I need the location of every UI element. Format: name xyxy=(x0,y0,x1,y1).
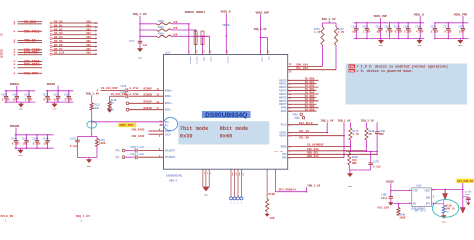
svg-text:4.7uF: 4.7uF xyxy=(385,31,393,34)
svg-text:4.7K: 4.7K xyxy=(314,31,321,34)
svg-text:GND: GND xyxy=(348,185,353,188)
capacitor bank VDD1_PPO: C17H C17K C17N xyxy=(430,13,468,47)
wire port row A2 net ENG_TDLE xyxy=(13,29,42,34)
power net VDD1_D (center) xyxy=(221,10,231,13)
svg-text:RX_D4: RX_D4 xyxy=(54,36,63,39)
svg-text:IHQ_1.8V: IHQ_1.8V xyxy=(86,92,100,95)
wire port row A11 net VCC_CTR xyxy=(13,71,42,76)
ferrite bead FB06 xyxy=(140,20,189,25)
svg-text:C153: C153 xyxy=(53,93,59,96)
ground right block xyxy=(347,174,352,189)
svg-text:RD5: RD5 xyxy=(87,40,92,43)
svg-text:0.1uF: 0.1uF xyxy=(65,99,73,102)
capacitor bank VDD1_D: C16B C17D C16D C16E xyxy=(385,13,425,47)
svg-text:C14D: C14D xyxy=(120,85,126,88)
svg-text:V01_PWR_EN: V01_PWR_EN xyxy=(457,180,473,183)
net label PCLK_IN bottom xyxy=(1,215,14,223)
svg-text:GND: GND xyxy=(458,44,463,47)
svg-text:C155: C155 xyxy=(64,93,70,96)
svg-text:10uF: 10uF xyxy=(381,197,388,200)
svg-text:IHQ_1.8V: IHQ_1.8V xyxy=(76,215,91,218)
svg-text:C16B: C16B xyxy=(385,25,391,28)
wire bus row RX_D5 xyxy=(50,40,97,44)
wire ROUT1 row xyxy=(279,81,316,86)
svg-text:RIN0N: RIN0N xyxy=(144,93,153,96)
svg-text:«: « xyxy=(13,41,15,46)
svg-text:RIN0-: RIN0- xyxy=(165,95,173,98)
wire port row A1 xyxy=(13,22,42,27)
svg-text:VDDPLL: VDDPLL xyxy=(196,57,199,66)
resistor R11B 10K (blue, DNM) xyxy=(442,204,455,213)
svg-text:VDD1_PPD: VDD1_PPD xyxy=(119,124,133,127)
wire OEN/PDB net xyxy=(282,155,344,160)
test point TP81 xyxy=(294,116,305,119)
svg-text:1uF: 1uF xyxy=(13,99,18,102)
wire ROUT3 row xyxy=(279,88,316,93)
svg-text:«: « xyxy=(13,29,15,34)
power net IHQ_1.8V (pullup col 2) xyxy=(338,119,351,122)
svg-text:OEN_934: OEN_934 xyxy=(307,155,319,158)
svg-text:680R: 680R xyxy=(94,107,100,110)
svg-text:RD3: RD3 xyxy=(87,32,92,35)
svg-text:PDB: PDB xyxy=(349,65,354,68)
svg-text:IH_934_R0P: IH_934_R0P xyxy=(101,87,118,90)
svg-text:C177: C177 xyxy=(129,40,135,43)
wire VOUT rail xyxy=(431,189,463,191)
wire GPO1 row xyxy=(281,108,317,113)
svg-text:RIN0+: RIN0+ xyxy=(165,89,173,92)
svg-text:IHQ_1.8V: IHQ_1.8V xyxy=(321,119,334,122)
wire bus row RX_D6 xyxy=(50,44,97,48)
power net IHQ_3.3V (pullup col 3) xyxy=(361,119,374,122)
svg-text:RD8: RD8 xyxy=(87,52,92,55)
svg-text:RIN1P: RIN1P xyxy=(144,101,153,104)
ground for C177 xyxy=(137,49,142,60)
svg-text:8bit mode: 8bit mode xyxy=(220,126,249,132)
svg-text:SOT-23-5: SOT-23-5 xyxy=(414,210,426,213)
svg-text:RST: RST xyxy=(426,203,431,206)
ground for R12A/C17Z xyxy=(86,160,91,168)
wire RIN0- row with coupling cap C14E xyxy=(110,91,164,98)
svg-text:1uF: 1uF xyxy=(459,31,464,34)
power net IHO_3.3V (PDB pullup) xyxy=(307,184,320,187)
svg-text:RD2: RD2 xyxy=(87,28,92,31)
power net IHQ_3.3V label mid xyxy=(254,28,267,31)
svg-text:GND: GND xyxy=(53,108,58,111)
svg-text:1uF: 1uF xyxy=(54,99,59,102)
svg-text:= 1.8 V, device is enabled (no: = 1.8 V, device is enabled (normal opera… xyxy=(357,65,449,70)
svg-text:GPO1: GPO1 xyxy=(281,110,287,113)
svg-text:C16E: C16E xyxy=(415,25,421,28)
svg-text:SD_BCK: SD_BCK xyxy=(24,20,36,24)
svg-text:GND: GND xyxy=(426,197,431,200)
capacitor C1B1 xyxy=(463,197,471,205)
power net VDDCML VDDPLL label xyxy=(185,11,206,14)
svg-text:DNP: DNP xyxy=(379,133,384,136)
power flag arrow V01 xyxy=(460,208,465,214)
svg-text:C14A: C14A xyxy=(12,93,18,96)
svg-text:«: « xyxy=(13,53,15,58)
svg-text:RX_D0: RX_D0 xyxy=(54,21,63,24)
svg-text:SYL_VS: SYL_VS xyxy=(299,130,309,133)
svg-text:PDB: PDB xyxy=(282,157,287,160)
power net IHQ_1.8V (top) xyxy=(133,13,147,16)
wire RIN0+ row with coupling cap C14B xyxy=(96,85,163,93)
pin RIN0+ name xyxy=(165,89,173,92)
wire port row A3 net TDI_ID xyxy=(13,39,42,44)
wire port row A7 xyxy=(13,53,42,58)
svg-text:V01_LDO: V01_LDO xyxy=(377,207,389,210)
ground R11B xyxy=(441,214,446,224)
resistor R13B 549 DNP xyxy=(348,151,359,165)
pin numbers IC top xyxy=(188,51,270,54)
svg-text:4.7K: 4.7K xyxy=(338,31,345,34)
svg-text:ETH_MDC: ETH_MDC xyxy=(24,51,38,55)
wire LDO3V to VIN xyxy=(390,183,412,191)
svg-text:SCL_934: SCL_934 xyxy=(296,67,308,70)
svg-text:SW1B: SW1B xyxy=(465,193,471,196)
pin names IC top (rotated) xyxy=(189,57,271,66)
svg-text:C1B5: C1B5 xyxy=(381,194,387,197)
resistor filter box R2 xyxy=(201,31,204,45)
wire VSYNC net xyxy=(279,130,328,135)
svg-text:C151: C151 xyxy=(43,93,49,96)
svg-text:U17: U17 xyxy=(166,51,171,54)
annotation teal circle junction xyxy=(87,121,97,128)
wire ROUT7 row xyxy=(279,102,316,107)
svg-text:C14E: C14E xyxy=(120,91,126,94)
svg-text:0.1uF: 0.1uF xyxy=(43,99,51,102)
svg-text:C17B: C17B xyxy=(373,161,379,164)
svg-text:7bit mode: 7bit mode xyxy=(180,126,209,132)
svg-text:C17D: C17D xyxy=(394,25,400,28)
svg-text:RD1: RD1 xyxy=(87,24,92,27)
pin CMLOUTN name xyxy=(165,156,176,159)
svg-text:RD0: RD0 xyxy=(87,21,92,24)
ferrite bead FB08 xyxy=(140,32,209,37)
svg-text:GND: GND xyxy=(379,44,384,47)
svg-text:4.7uF: 4.7uF xyxy=(416,31,424,34)
wire NC pins group xyxy=(230,169,244,204)
svg-text:VDDD: VDDD xyxy=(209,57,212,63)
node left edge ref LA xyxy=(0,34,3,37)
wire ROUT0 row xyxy=(279,78,318,83)
svg-text:2.2uF: 2.2uF xyxy=(404,31,412,34)
svg-text:TP6: TP6 xyxy=(115,150,120,153)
svg-text:HSYNC: HSYNC xyxy=(279,135,287,138)
note text line 2 xyxy=(349,69,414,74)
wire ROUT6 row xyxy=(279,98,318,103)
svg-text:C17H: C17H xyxy=(430,25,436,28)
svg-text:0.1uF: 0.1uF xyxy=(12,143,20,146)
svg-text:IHO_3.3V: IHO_3.3V xyxy=(322,18,336,21)
net label IHQ_1.8V bottom xyxy=(76,215,91,223)
capacitor C17B 0.1uF xyxy=(369,151,382,170)
svg-text:C17Z: C17Z xyxy=(70,138,76,141)
svg-text:VDD1: VDD1 xyxy=(261,57,264,63)
annotation blue ellipse on IDX pins xyxy=(163,117,177,130)
svg-text:0.1uF: 0.1uF xyxy=(444,31,452,34)
wire GND pins group xyxy=(203,169,212,187)
svg-text:C161: C161 xyxy=(376,25,382,28)
svg-text:1uF: 1uF xyxy=(143,44,148,47)
wire port row A6 net ETH_MDC xyxy=(13,51,42,56)
wire bus row RX_D2 xyxy=(50,28,97,32)
svg-text:PCLK: PCLK xyxy=(281,124,287,127)
svg-text:0.1uF: 0.1uF xyxy=(2,99,10,102)
wire MODE net xyxy=(281,140,351,148)
svg-text:VIN: VIN xyxy=(413,190,418,193)
svg-text:C148: C148 xyxy=(1,93,7,96)
wire bottom join right block xyxy=(349,165,370,174)
wire IDX net xyxy=(274,148,367,153)
svg-text:1uF: 1uF xyxy=(43,143,48,146)
power net VDD1_OVP (center) xyxy=(256,12,270,15)
ground R10B xyxy=(265,212,269,217)
svg-text:RD4: RD4 xyxy=(87,36,92,39)
wire bus row RX_D7 xyxy=(50,48,97,52)
svg-text:IH2_PCLK: IH2_PCLK xyxy=(299,122,313,125)
svg-text:1uF: 1uF xyxy=(352,31,357,34)
capacitor C17Z 0.1uF xyxy=(70,137,92,158)
svg-text:GND: GND xyxy=(138,57,143,60)
test point TP4 / wire RIN1+ row xyxy=(110,101,164,106)
part name under IC xyxy=(166,174,182,182)
svg-text:IH_RD9: IH_RD9 xyxy=(305,108,315,111)
svg-text:0x60: 0x60 xyxy=(220,134,233,140)
svg-text:RIN1N: RIN1N xyxy=(144,107,153,110)
wire VDDPLL pin drop xyxy=(195,29,197,54)
svg-text:FB07: FB07 xyxy=(158,26,164,29)
svg-text:VCC_CTR: VCC_CTR xyxy=(24,71,38,75)
svg-text:IHQ_1.8V: IHQ_1.8V xyxy=(133,13,147,16)
wire LOCK row xyxy=(131,134,163,138)
wire ROUT2 row xyxy=(279,85,318,90)
svg-text:0.1uF: 0.1uF xyxy=(25,99,33,102)
IC title DS90UB934Q (blue highlight) xyxy=(202,111,251,119)
svg-text:VDD1_D: VDD1_D xyxy=(221,10,231,13)
svg-text:2.2uF: 2.2uF xyxy=(431,31,439,34)
pin CMLOUTP name xyxy=(165,150,176,153)
node left edge refs xyxy=(0,50,3,59)
wire second drop xyxy=(261,38,268,55)
svg-text:«: « xyxy=(469,189,471,193)
svg-text:0.47uF: 0.47uF xyxy=(130,93,140,96)
svg-text:C167: C167 xyxy=(352,25,358,28)
svg-text:TP4: TP4 xyxy=(110,102,115,105)
wire pullup col1 xyxy=(326,122,328,132)
wire ROUT5 row xyxy=(279,95,316,100)
wire HSYNC net xyxy=(279,135,345,140)
ground for R122 xyxy=(107,110,112,113)
pin RIN1+ name xyxy=(165,102,173,105)
wire port row A9 net PHY_RST0 xyxy=(13,63,42,68)
svg-text:0.47uF: 0.47uF xyxy=(130,87,140,90)
wire pullup tee xyxy=(323,21,337,27)
svg-text:FB06: FB06 xyxy=(158,20,164,23)
resistor R12B 4K xyxy=(365,122,375,151)
net label V01_PWR_EN (yellow highlight) xyxy=(456,179,474,184)
wire port row A4 xyxy=(13,41,42,46)
svg-text:4K: 4K xyxy=(368,133,372,136)
svg-text:SYL_HS: SYL_HS xyxy=(299,137,309,140)
svg-text:VDDIN: VDDIN xyxy=(222,24,230,27)
svg-text:U10: U10 xyxy=(417,184,422,187)
svg-text:VDD1B: VDD1B xyxy=(47,83,56,86)
wire GPO0 row xyxy=(281,105,319,110)
svg-text:PDB: PDB xyxy=(349,70,354,73)
resistor R14B 100K xyxy=(397,204,406,220)
power flag arrow VOUT xyxy=(443,189,448,199)
wire bus row RX_D3 xyxy=(50,32,97,36)
svg-text:0.1uF: 0.1uF xyxy=(70,145,78,148)
svg-text:ENG_TDLE: ENG_TDLE xyxy=(24,29,40,33)
svg-text:C16D: C16D xyxy=(403,25,409,28)
wire SCL net xyxy=(288,45,336,73)
capacitor C177 1uF xyxy=(129,40,148,49)
wire EN net xyxy=(394,203,412,205)
wire PCLK net xyxy=(281,122,318,127)
svg-text:IHO_3.3V: IHO_3.3V xyxy=(307,184,320,187)
wire PASS row xyxy=(131,128,163,131)
port chevron blue xyxy=(469,189,471,193)
svg-text:IHQ_1.8V: IHQ_1.8V xyxy=(338,119,351,122)
svg-text:0.1uF: 0.1uF xyxy=(33,143,41,146)
svg-text:IH0_PASS: IH0_PASS xyxy=(131,128,145,131)
svg-text:1uF: 1uF xyxy=(22,143,27,146)
resistor R163 4.7K xyxy=(334,27,344,45)
capacitor bank VDD1B: C151 C153 C155 xyxy=(43,83,74,111)
svg-text:RX_D2: RX_D2 xyxy=(54,28,63,31)
wire IDX pullup vertical with resistor R121 xyxy=(90,95,101,136)
note text line 1 xyxy=(349,64,449,69)
wire port row A8 net ENG_TMCA xyxy=(13,60,42,65)
svg-text:= 0, device is powered down.: = 0, device is powered down. xyxy=(357,69,414,74)
capacitor C12B DNP xyxy=(375,122,386,154)
svg-text:C14B: C14B xyxy=(43,137,49,140)
op-amp U17 DS90UB934Q deserializer IC body xyxy=(164,51,288,169)
wire ROUT4 row xyxy=(279,91,318,96)
svg-text:IHQ_3.3V: IHQ_3.3V xyxy=(254,28,267,31)
svg-text:TDI_ID: TDI_ID xyxy=(24,39,36,43)
resistor R12A 100K xyxy=(92,137,106,158)
wire VDDD pin drop xyxy=(208,36,210,54)
pin LOCK name xyxy=(165,133,171,136)
test point TP6 / capacitor C190 / wire CMLOUTP xyxy=(115,146,163,153)
wire bus row RX_D1 xyxy=(50,24,98,28)
svg-text:VDD1_PPO: VDD1_PPO xyxy=(454,13,468,16)
part name U10 xyxy=(411,207,427,212)
svg-text:VDD1_OVP: VDD1_OVP xyxy=(256,12,270,15)
svg-text:LDO3V: LDO3V xyxy=(386,181,395,184)
svg-text:4.7K: 4.7K xyxy=(352,133,359,136)
svg-text:GND: GND xyxy=(87,165,92,168)
ground C1B5 xyxy=(388,203,393,206)
resistor filter box R1 xyxy=(194,31,197,45)
wire bottom join xyxy=(78,158,98,160)
svg-text:RIN1+: RIN1+ xyxy=(165,102,173,105)
wire bus row RX_CLK xyxy=(50,52,97,56)
wire VDD1_OVP pin drops xyxy=(260,14,262,54)
wire VDDL pin drop xyxy=(196,36,210,55)
annotation note box PDB xyxy=(346,64,468,105)
svg-text:PHY_RST0: PHY_RST0 xyxy=(24,63,40,67)
svg-text:VDDCML: VDDCML xyxy=(10,125,20,128)
annotation teal ellipse R11B xyxy=(432,200,458,218)
svg-text:RX_D7: RX_D7 xyxy=(54,48,63,51)
svg-text:C14C: C14C xyxy=(24,93,30,96)
power net LDO3V label xyxy=(386,181,395,184)
wire VDD1_D pin drop / node VDDIN xyxy=(222,13,230,54)
svg-text:VOUT: VOUT xyxy=(424,190,430,193)
power net IHQ_1.8V (left) xyxy=(86,92,100,95)
svg-text:2.2uF: 2.2uF xyxy=(363,31,371,34)
svg-text:CMLOUTN: CMLOUTN xyxy=(165,156,176,159)
svg-text:RX_D6: RX_D6 xyxy=(54,44,63,47)
pin PASS name xyxy=(165,130,171,133)
svg-text:10K: 10K xyxy=(270,217,275,220)
svg-text:GND: GND xyxy=(204,194,209,197)
svg-text:RX_D5: RX_D5 xyxy=(54,40,63,43)
svg-text:C149: C149 xyxy=(32,137,38,140)
svg-text:RIN1-: RIN1- xyxy=(165,109,173,112)
svg-text:DBH-4: DBH-4 xyxy=(169,180,177,183)
svg-text:DS90UB934Q: DS90UB934Q xyxy=(205,112,247,119)
svg-text:DS90UB934Q: DS90UB934Q xyxy=(166,174,182,177)
wire pullup bus xyxy=(346,151,378,153)
svg-text:RD6: RD6 xyxy=(87,44,92,47)
pin RIN0- name xyxy=(165,95,173,98)
node labels right edge xyxy=(465,190,474,202)
resistor R122 termination xyxy=(108,96,117,109)
svg-text:GND: GND xyxy=(19,108,24,111)
svg-text:0.1uF: 0.1uF xyxy=(373,166,381,169)
net label VDD1_PPD (yellow highlight) xyxy=(118,123,136,127)
wire GRB net xyxy=(282,152,378,157)
svg-text:100K: 100K xyxy=(99,142,106,145)
svg-text:VDDCML VDDPLL: VDDCML VDDPLL xyxy=(185,11,206,14)
svg-text:0x30: 0x30 xyxy=(180,134,193,140)
capacitor bank VDDPLL: C148 C14A C14C xyxy=(1,83,35,111)
svg-text:VDDIN: VDDIN xyxy=(226,57,229,64)
svg-text:RD7: RD7 xyxy=(87,48,92,51)
capacitor bank VDDCML: C146 C147 C149 C14B xyxy=(10,125,54,157)
svg-text:LOCK: LOCK xyxy=(165,133,171,136)
svg-text:IH0_LOCK: IH0_LOCK xyxy=(131,135,145,138)
svg-text:«: « xyxy=(13,71,15,76)
svg-text:RIN0P: RIN0P xyxy=(144,88,153,91)
svg-text:1uF: 1uF xyxy=(376,31,381,34)
svg-text:IH_934MODE: IH_934MODE xyxy=(307,144,324,147)
power net IHQ_1.8V (pullup col 1) xyxy=(321,119,334,122)
svg-text:C17N: C17N xyxy=(458,25,464,28)
svg-text:VDD1_OVP: VDD1_OVP xyxy=(374,15,388,18)
test point TP5 / wire RIN1- row xyxy=(110,107,164,112)
svg-text:TPB1: TPB1 xyxy=(294,117,300,120)
svg-text:GND: GND xyxy=(19,154,24,157)
svg-text:0.1uF: 0.1uF xyxy=(395,31,403,34)
svg-text:PCLK_IN: PCLK_IN xyxy=(1,215,14,218)
pin names U10 xyxy=(413,190,431,206)
svg-text:VDDL: VDDL xyxy=(203,57,206,63)
pin numbers U10 xyxy=(409,189,435,205)
svg-text:C146: C146 xyxy=(11,137,17,140)
wire port row A5 net ENG_FABB xyxy=(13,48,42,53)
svg-text:VDDPLL: VDDPLL xyxy=(10,83,20,86)
svg-text:VDD1_D: VDD1_D xyxy=(414,13,424,16)
wire SDA net xyxy=(288,45,323,67)
svg-text:C162: C162 xyxy=(362,25,368,28)
